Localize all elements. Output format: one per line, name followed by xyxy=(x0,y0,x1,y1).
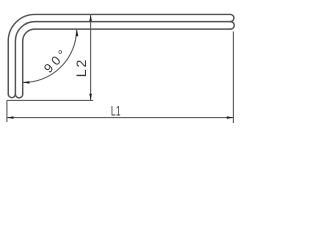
hex key bottom end cap lobe (right) xyxy=(15,94,22,98)
hex key right end cap lobe (top) xyxy=(231,14,234,21)
svg-text:L2: L2 xyxy=(73,58,89,78)
90-degree arc upper arrowhead xyxy=(76,30,79,37)
L1 dimension line xyxy=(7,117,234,119)
L2 bottom arrowhead xyxy=(89,94,92,101)
hex key right end cap lobe (bottom) xyxy=(231,22,235,30)
90-degree dimension arc xyxy=(23,29,76,82)
hex key inner edge: right edge of vertical arm, inner bend arc, bottom edge xyxy=(23,29,231,94)
hex key bottom end cap lobe (left) xyxy=(8,94,15,97)
L1 right arrowhead xyxy=(227,116,234,119)
hex key middle line: vertical part, middle bend arc, horizontal part xyxy=(15,22,230,95)
L1 left extension line xyxy=(6,100,8,122)
svg-text:L1: L1 xyxy=(111,103,121,119)
L1 left arrowhead xyxy=(7,116,14,119)
90-degree arc lower arrowhead xyxy=(23,81,30,84)
L2 top arrowhead xyxy=(89,15,92,22)
L2 bottom extension line xyxy=(7,99,93,101)
L2 dimension line xyxy=(90,15,92,100)
L1 right extension line xyxy=(232,32,234,124)
hex key outer edge: left edge, outer bend arc, top edge xyxy=(8,14,230,94)
